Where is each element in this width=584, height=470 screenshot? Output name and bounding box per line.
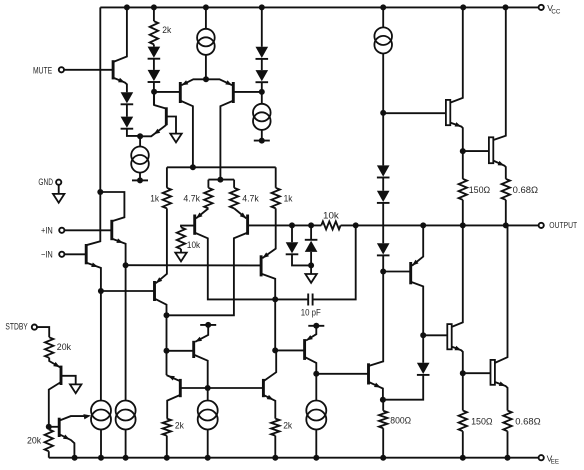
pin Q5 emitter arrow (154, 129, 161, 135)
wire node B to Q6 base (154, 91, 180, 93)
wire QL3 collector (261, 274, 275, 351)
terminal OUTPUT (539, 221, 578, 230)
wire VCC drop to Q2 collector (86, 7, 100, 245)
label R13 150ohm (471, 416, 493, 426)
resistor R16 20k low (45, 429, 53, 451)
wire QL2 collector (155, 299, 167, 376)
node VEE-R-2k left junction (164, 455, 170, 461)
wire QO4 emitter (495, 382, 508, 411)
pin QC2 emitter arrow (306, 335, 313, 340)
svg-text:2k: 2k (283, 421, 292, 431)
wire QO1 emitter (450, 123, 463, 152)
node output-D11 junction (289, 222, 295, 228)
wire I7 top (207, 388, 209, 401)
wire R16 bottom (48, 451, 50, 457)
wire Q2 emitter to QL2 base (101, 290, 155, 292)
label R11 150ohm (469, 185, 491, 195)
node E QP1 base (380, 269, 386, 275)
terminal +IN (41, 226, 64, 236)
svg-text:10 pF: 10 pF (301, 308, 321, 318)
label R10 10k (323, 210, 339, 220)
node Q1 collector junction (97, 189, 103, 195)
wire D7-D8 (382, 178, 384, 191)
wire node A to I3 (139, 136, 141, 146)
svg-text:CC: CC (551, 8, 560, 15)
wire T4 to QC2 emitter (306, 326, 316, 341)
wire R8 bottom (274, 436, 276, 458)
pin QL2 emitter arrow (156, 277, 162, 283)
resistor R11 150ohm (459, 179, 467, 200)
wire QO2 emitter (493, 161, 506, 179)
node VEE-I6 junction (123, 455, 129, 461)
wire VCC to I1 (205, 7, 207, 28)
node QC2-QD1 junction (313, 371, 319, 377)
label R2 1k (150, 193, 159, 203)
wire node E to QD1 collector (369, 272, 384, 367)
wire QC2 to QD1 base (316, 373, 368, 375)
terminal MUTE (33, 65, 64, 75)
transistor QB2 mirror right (262, 379, 265, 397)
current source I7 (198, 401, 218, 430)
resistor R1 2k (150, 21, 158, 44)
wire R12 bottom (505, 200, 507, 226)
wire node D to D7 (382, 113, 384, 165)
label R9 800ohm (390, 416, 411, 426)
wire R7 bottom (166, 436, 168, 458)
pin Q2 emitter arrow (91, 263, 98, 268)
transistor QO3 power (447, 324, 451, 349)
transistor QC1 (192, 341, 195, 358)
wire output bus right (341, 224, 539, 226)
svg-text:2k: 2k (162, 25, 171, 35)
wire QB1 emitter (167, 375, 181, 381)
wire rail collector-left (167, 166, 276, 168)
diode D8 (377, 191, 390, 203)
node Q1 emitter tap (123, 262, 129, 268)
label R5 1k (284, 193, 293, 203)
resistor R15 20k (45, 337, 53, 358)
node QL3-QB2 junction (272, 347, 278, 353)
wire R6 to ground (180, 249, 182, 253)
wire rail1 to R5 (275, 167, 277, 188)
pin QP1 emitter arrow (412, 260, 419, 266)
transistor QD1 driver (367, 363, 370, 384)
pin QB1 emitter arrow (168, 376, 175, 381)
node T4 bias stub (308, 323, 324, 329)
transistor QB1 mirror left (179, 379, 182, 397)
wire I8 bottom (315, 430, 317, 458)
node VEE-R-800 junction (380, 455, 386, 461)
wire I2 bottom (261, 130, 263, 141)
wire QO1 emitter to R11 (462, 151, 464, 179)
wire QO2 collector (493, 7, 506, 140)
pin QO1 emitter arrow (455, 122, 462, 127)
current source I5 (91, 401, 111, 430)
wire Q5 base to ground (166, 117, 176, 134)
wire QC2 collector (305, 357, 317, 374)
current source I1 tail (197, 29, 215, 55)
label C1 10pF (301, 308, 321, 318)
wire rail1 to R2 (166, 167, 168, 188)
node VEE-R-2k right junction (272, 455, 278, 461)
node output-QP1 junction (420, 222, 426, 228)
wire QO4 collector (495, 225, 508, 363)
node VEE-I5 junction (98, 455, 104, 461)
wire QU1 collector (195, 233, 276, 300)
wire comp node to C1 (275, 298, 308, 300)
ground GND terminal (53, 194, 64, 203)
node output-R11 junction (460, 222, 466, 228)
wire D4 to node B (153, 82, 155, 105)
svg-text:4.7k: 4.7k (183, 193, 200, 203)
pin Q6 emitter arrow (182, 80, 189, 85)
node comp junction (272, 296, 278, 302)
current source I8 (306, 401, 326, 430)
wire I5 bottom (100, 430, 102, 458)
resistor R9 800ohm (379, 411, 387, 429)
wire Q3 collector (113, 7, 127, 62)
svg-text:−IN: −IN (41, 250, 53, 260)
wire node E to QP1 base (383, 271, 411, 273)
label R15 20k (57, 342, 72, 352)
wire QO1 collector (450, 7, 463, 102)
wire I8 top (315, 374, 317, 401)
node T2 bias stub (254, 138, 270, 144)
wire Q7 emitter (206, 79, 232, 85)
wire QS1 base to ground (61, 376, 76, 385)
wire D10 to node F (422, 335, 424, 363)
pin QC1 emitter arrow (195, 337, 202, 342)
node clamp junction (308, 262, 314, 268)
transistor Q6 diff left (179, 82, 182, 103)
wire QS2 emitter (59, 434, 74, 458)
svg-text:150Ω: 150Ω (471, 416, 493, 426)
wire MUTE to Q3 base (64, 69, 113, 71)
wire QO3 emitter (452, 347, 463, 374)
wire D12 top (310, 225, 312, 239)
node VCC-QO2 junction (503, 4, 509, 10)
wire QO3 to QO4 base (463, 372, 491, 374)
diode D3 (148, 47, 161, 59)
wire rail2 to R4 (233, 180, 235, 188)
svg-text:+IN: +IN (41, 226, 53, 236)
node QL2 coll-QC1 base junction (164, 348, 170, 354)
svg-text:GND: GND (38, 177, 53, 187)
wire QP1 emitter to output (412, 225, 423, 265)
resistor R7 2k left (163, 419, 171, 436)
wire R9 bottom (382, 428, 384, 458)
node VEE-I8 junction (313, 455, 319, 461)
terminal VEE (539, 453, 559, 465)
pin QU1 emitter arrow (196, 213, 203, 219)
transistor QS2 standby (58, 418, 61, 437)
wire node to QS2 base (49, 426, 59, 428)
transistor QL2 (153, 281, 156, 301)
node QO3 emitter junction (460, 370, 466, 376)
wire D12 bottom (310, 252, 312, 274)
wire D11 top (291, 225, 293, 242)
pin QO3 emitter arrow (455, 346, 462, 351)
label R4 4.7k (242, 193, 259, 203)
node rail2-Q7 junction (217, 177, 223, 183)
wire Q5 collector (154, 92, 166, 109)
wire R2 to QL2 emitter (156, 208, 167, 283)
label R3 4.7k (183, 193, 200, 203)
wire degeneration bus (126, 264, 262, 266)
diode D12 clamp (305, 240, 318, 252)
wire VCC to R1 (153, 7, 155, 21)
wire QP1 collector (411, 282, 424, 336)
wire R15 to QS1 emitter (49, 358, 60, 367)
current source I6 (116, 401, 136, 430)
wire D8 to D9 (382, 203, 384, 243)
resistor R5 1k right (272, 188, 280, 209)
pin QO2 emitter arrow (498, 161, 505, 166)
resistor R14 0.68ohm low (503, 411, 511, 432)
wire node C to Q7 base (233, 91, 261, 93)
pin QO4 emitter arrow (499, 382, 506, 387)
node Q2 emitter tap (98, 288, 104, 294)
svg-text:150Ω: 150Ω (469, 185, 491, 195)
current source I3 (131, 147, 149, 173)
diode D11 clamp (286, 242, 299, 254)
wire R1 to D3 (153, 44, 155, 46)
svg-text:20k: 20k (27, 435, 42, 445)
wire QU2 collector (167, 233, 248, 316)
wire Q6 emitter (182, 79, 207, 85)
wire STDBY to R15 (37, 327, 49, 337)
svg-text:STDBY: STDBY (5, 322, 27, 332)
wire QD1 emitter to R9 (382, 400, 384, 411)
node VCC-diode junction (259, 4, 265, 10)
label R1 2k (162, 25, 171, 35)
wire QC1 base (167, 350, 194, 352)
label R8 2k (283, 421, 292, 431)
diode D4 (148, 70, 161, 82)
wire QC2 base (275, 349, 304, 351)
wire I3 bottom (139, 173, 141, 181)
svg-text:800Ω: 800Ω (390, 416, 411, 426)
node QD1 emitter junction (380, 397, 386, 403)
svg-text:10k: 10k (187, 240, 201, 250)
node QO1 emitter junction (460, 148, 466, 154)
diode D10 (417, 363, 430, 375)
node diff tail (203, 76, 209, 82)
node VCC-I4 junction (380, 4, 386, 10)
pin QS2 collector arrow (83, 414, 91, 419)
node VEE-I7 junction (205, 455, 211, 461)
node output-D12 junction (308, 222, 314, 228)
wire rail2 to R3 (207, 180, 209, 188)
resistor R13 150ohm low (459, 411, 467, 432)
wire Q2 emitter (86, 263, 101, 401)
svg-text:1k: 1k (284, 193, 293, 203)
transistor Q3 mute switch (112, 60, 115, 79)
label R16 20k (27, 435, 42, 445)
wire VCC to I4 (382, 7, 384, 27)
wire R11 bottom (462, 200, 464, 226)
transistor QS1 standby (60, 366, 63, 385)
svg-text:20k: 20k (57, 342, 72, 352)
svg-text:1k: 1k (150, 193, 159, 203)
pin Q7 emitter arrow (225, 80, 232, 85)
wire I4 to node D (382, 54, 384, 113)
node A mute bias (137, 133, 143, 139)
ground Q5 base (170, 134, 181, 143)
resistor R12 0.68ohm (502, 179, 510, 200)
svg-text:2k: 2k (175, 421, 184, 431)
transistor QU1 2nd stage left (193, 215, 196, 235)
current source I2 (253, 104, 271, 130)
transistor Q1 +IN input (110, 220, 113, 240)
wire D3-D4 (153, 59, 155, 70)
pin QU2 emitter arrow (240, 213, 247, 219)
resistor R3 4.7k left (204, 188, 212, 209)
resistor R8 2k right (271, 419, 279, 436)
terminal STDBY (5, 322, 37, 332)
resistor R4 4.7k right (230, 188, 238, 209)
node C diff right base (259, 89, 265, 95)
svg-text:0.68Ω: 0.68Ω (515, 416, 540, 426)
svg-text:4.7k: 4.7k (242, 193, 259, 203)
ground clamp (305, 274, 316, 283)
wire QB2 collector (263, 350, 276, 381)
wire Q6 collector (180, 101, 193, 168)
node VCC-MUTE junction (124, 4, 130, 10)
wire C1 to output tap (313, 225, 356, 299)
wire R4 to QU2 emitter (234, 208, 246, 218)
pin Q1 emitter arrow (116, 238, 123, 243)
svg-text:OUTPUT: OUTPUT (549, 221, 577, 230)
svg-text:MUTE: MUTE (33, 65, 52, 75)
wire QB2 emitter (263, 395, 275, 419)
transistor QU2 2nd stage right (246, 215, 249, 235)
resistor R6 10k to gnd (177, 227, 185, 249)
wire Q7 collector (220, 101, 233, 180)
node VCC-QO1 junction (460, 4, 466, 10)
transistor Q5 mute clamp (165, 107, 168, 125)
wire Q1 emitter (112, 239, 126, 401)
node D upper drive (380, 110, 386, 116)
wire QD1 emitter to D10 (383, 375, 423, 400)
wire rail collector-right (208, 179, 234, 181)
wire QS1 collector (49, 382, 61, 427)
pin QS2 emitter arrow (63, 435, 70, 440)
wire D1-D2 (126, 104, 128, 116)
pin QB2 emitter arrow (267, 395, 274, 400)
wire QC1 collector (194, 355, 208, 388)
wire T3 to QC1 emitter (195, 325, 208, 342)
pin QS1 emitter arrow (53, 362, 60, 367)
wire I7 bottom (207, 430, 209, 458)
svg-text:EE: EE (551, 459, 559, 466)
wire node D to QO1 base (383, 112, 446, 114)
label R7 2k (175, 421, 184, 431)
diode D2 (121, 117, 134, 129)
wire R13 bottom (462, 431, 464, 458)
label R12 0.68ohm (513, 185, 538, 195)
transistor QO1 power (446, 100, 450, 125)
wire -IN to Q2 base (64, 253, 86, 255)
wire VCC to D5 (261, 7, 263, 46)
transistor Q7 diff right (232, 82, 235, 103)
wire output bus left (248, 224, 322, 226)
terminal -IN (41, 250, 64, 260)
resistor R10 10k feedback (321, 221, 340, 229)
node B diff left base (151, 89, 157, 95)
resistor R2 1k left (163, 188, 171, 209)
wire QS2 collector (59, 416, 88, 421)
transistor QO2 power (489, 137, 493, 163)
node output-R12 junction (503, 222, 509, 228)
wire VCC top bus (100, 6, 538, 8)
pin Q3 emitter arrow (118, 78, 125, 83)
transistor QP1 (409, 262, 412, 284)
wire GND stub (58, 185, 60, 194)
ground R6 (175, 253, 186, 262)
node output-C1 junction (353, 222, 359, 228)
node T3 bias stub (200, 322, 216, 328)
wire D2 to node A (127, 129, 140, 136)
svg-text:0.68Ω: 0.68Ω (513, 185, 538, 195)
wire Q1 collector loop (100, 192, 124, 221)
wire I6 bottom (125, 430, 127, 458)
wire R14 bottom (507, 431, 509, 458)
node standby junction (46, 424, 52, 430)
node VEE-QS2 emitter junction (72, 455, 78, 461)
pin QL3 emitter arrow (262, 252, 269, 258)
node QC1-mirror junction (205, 385, 211, 391)
wire VEE bottom bus (49, 457, 539, 459)
node VCC-I1 junction (203, 4, 209, 10)
diode D1 (121, 92, 134, 104)
pin QD1 emitter arrow (374, 383, 381, 388)
wire node A to Q5 emitter (140, 125, 166, 136)
transistor QO4 power (491, 360, 495, 385)
node T1 bias stub (132, 177, 148, 183)
wire D6 to node C (261, 82, 263, 104)
wire mirror base rail (180, 387, 263, 389)
wire R5 to QL3 emitter (262, 208, 275, 258)
transistor QL3 (260, 255, 263, 276)
wire D9 to node E (382, 255, 384, 271)
capacitor C1 10pF (308, 294, 312, 306)
wire QO3 emitter to R13 (462, 373, 464, 410)
transistor QC2 (303, 339, 306, 360)
wire output to QO3 collector (452, 225, 463, 327)
wire QO3 base (423, 334, 447, 336)
label R6 10k (187, 240, 201, 250)
wire D11 bottom (292, 254, 311, 265)
terminal GND (38, 177, 61, 187)
label R14 0.68ohm (515, 416, 540, 426)
wire Q3 emitter (113, 78, 127, 93)
svg-text:10k: 10k (323, 210, 339, 220)
diode D5 (256, 47, 269, 59)
wire I1 to tail node (205, 55, 207, 79)
diode D7 (377, 165, 390, 177)
current source I4 (374, 27, 392, 53)
diode D6 (256, 70, 269, 82)
diode D9 (377, 243, 390, 255)
node F QO3 base (420, 332, 426, 338)
terminal VCC (539, 3, 561, 15)
wire QB1 collector (167, 395, 180, 419)
node VCC-2k junction (151, 4, 157, 10)
wire QU1 base to R6 (181, 226, 195, 228)
wire D5-D6 (261, 59, 263, 70)
wire QO1 to QO2 base (463, 150, 489, 152)
